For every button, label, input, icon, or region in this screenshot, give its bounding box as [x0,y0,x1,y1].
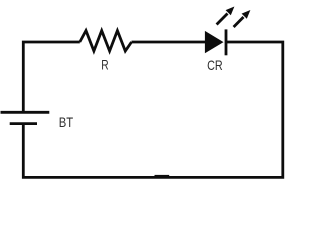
wire: junction dash on bottom wire [155,175,170,178]
svg-text:R: R [101,58,108,73]
LED CR: light emission arrow 2 shaft [234,17,244,27]
LED CR: light emission arrow 2 head [242,10,251,19]
wire: resistor to diode anode [132,41,206,44]
resistor R [80,31,132,51]
svg-text:BT: BT [59,115,74,130]
svg-text:CR: CR [207,58,223,73]
LED CR: light emission arrow 1 head [226,7,235,16]
LED CR: anode triangle [205,31,224,53]
LED CR: light emission arrow 1 shaft [217,14,228,25]
wire: diode cathode to top-right corner, right wire, bottom wire, left lower segment [23,42,283,177]
battery BT: short plate (negative) [10,122,37,125]
battery BT: long plate (positive) [1,111,50,114]
LED CR: cathode bar [225,29,228,55]
wire: left upper segment and top wire to resistor [23,42,80,111]
